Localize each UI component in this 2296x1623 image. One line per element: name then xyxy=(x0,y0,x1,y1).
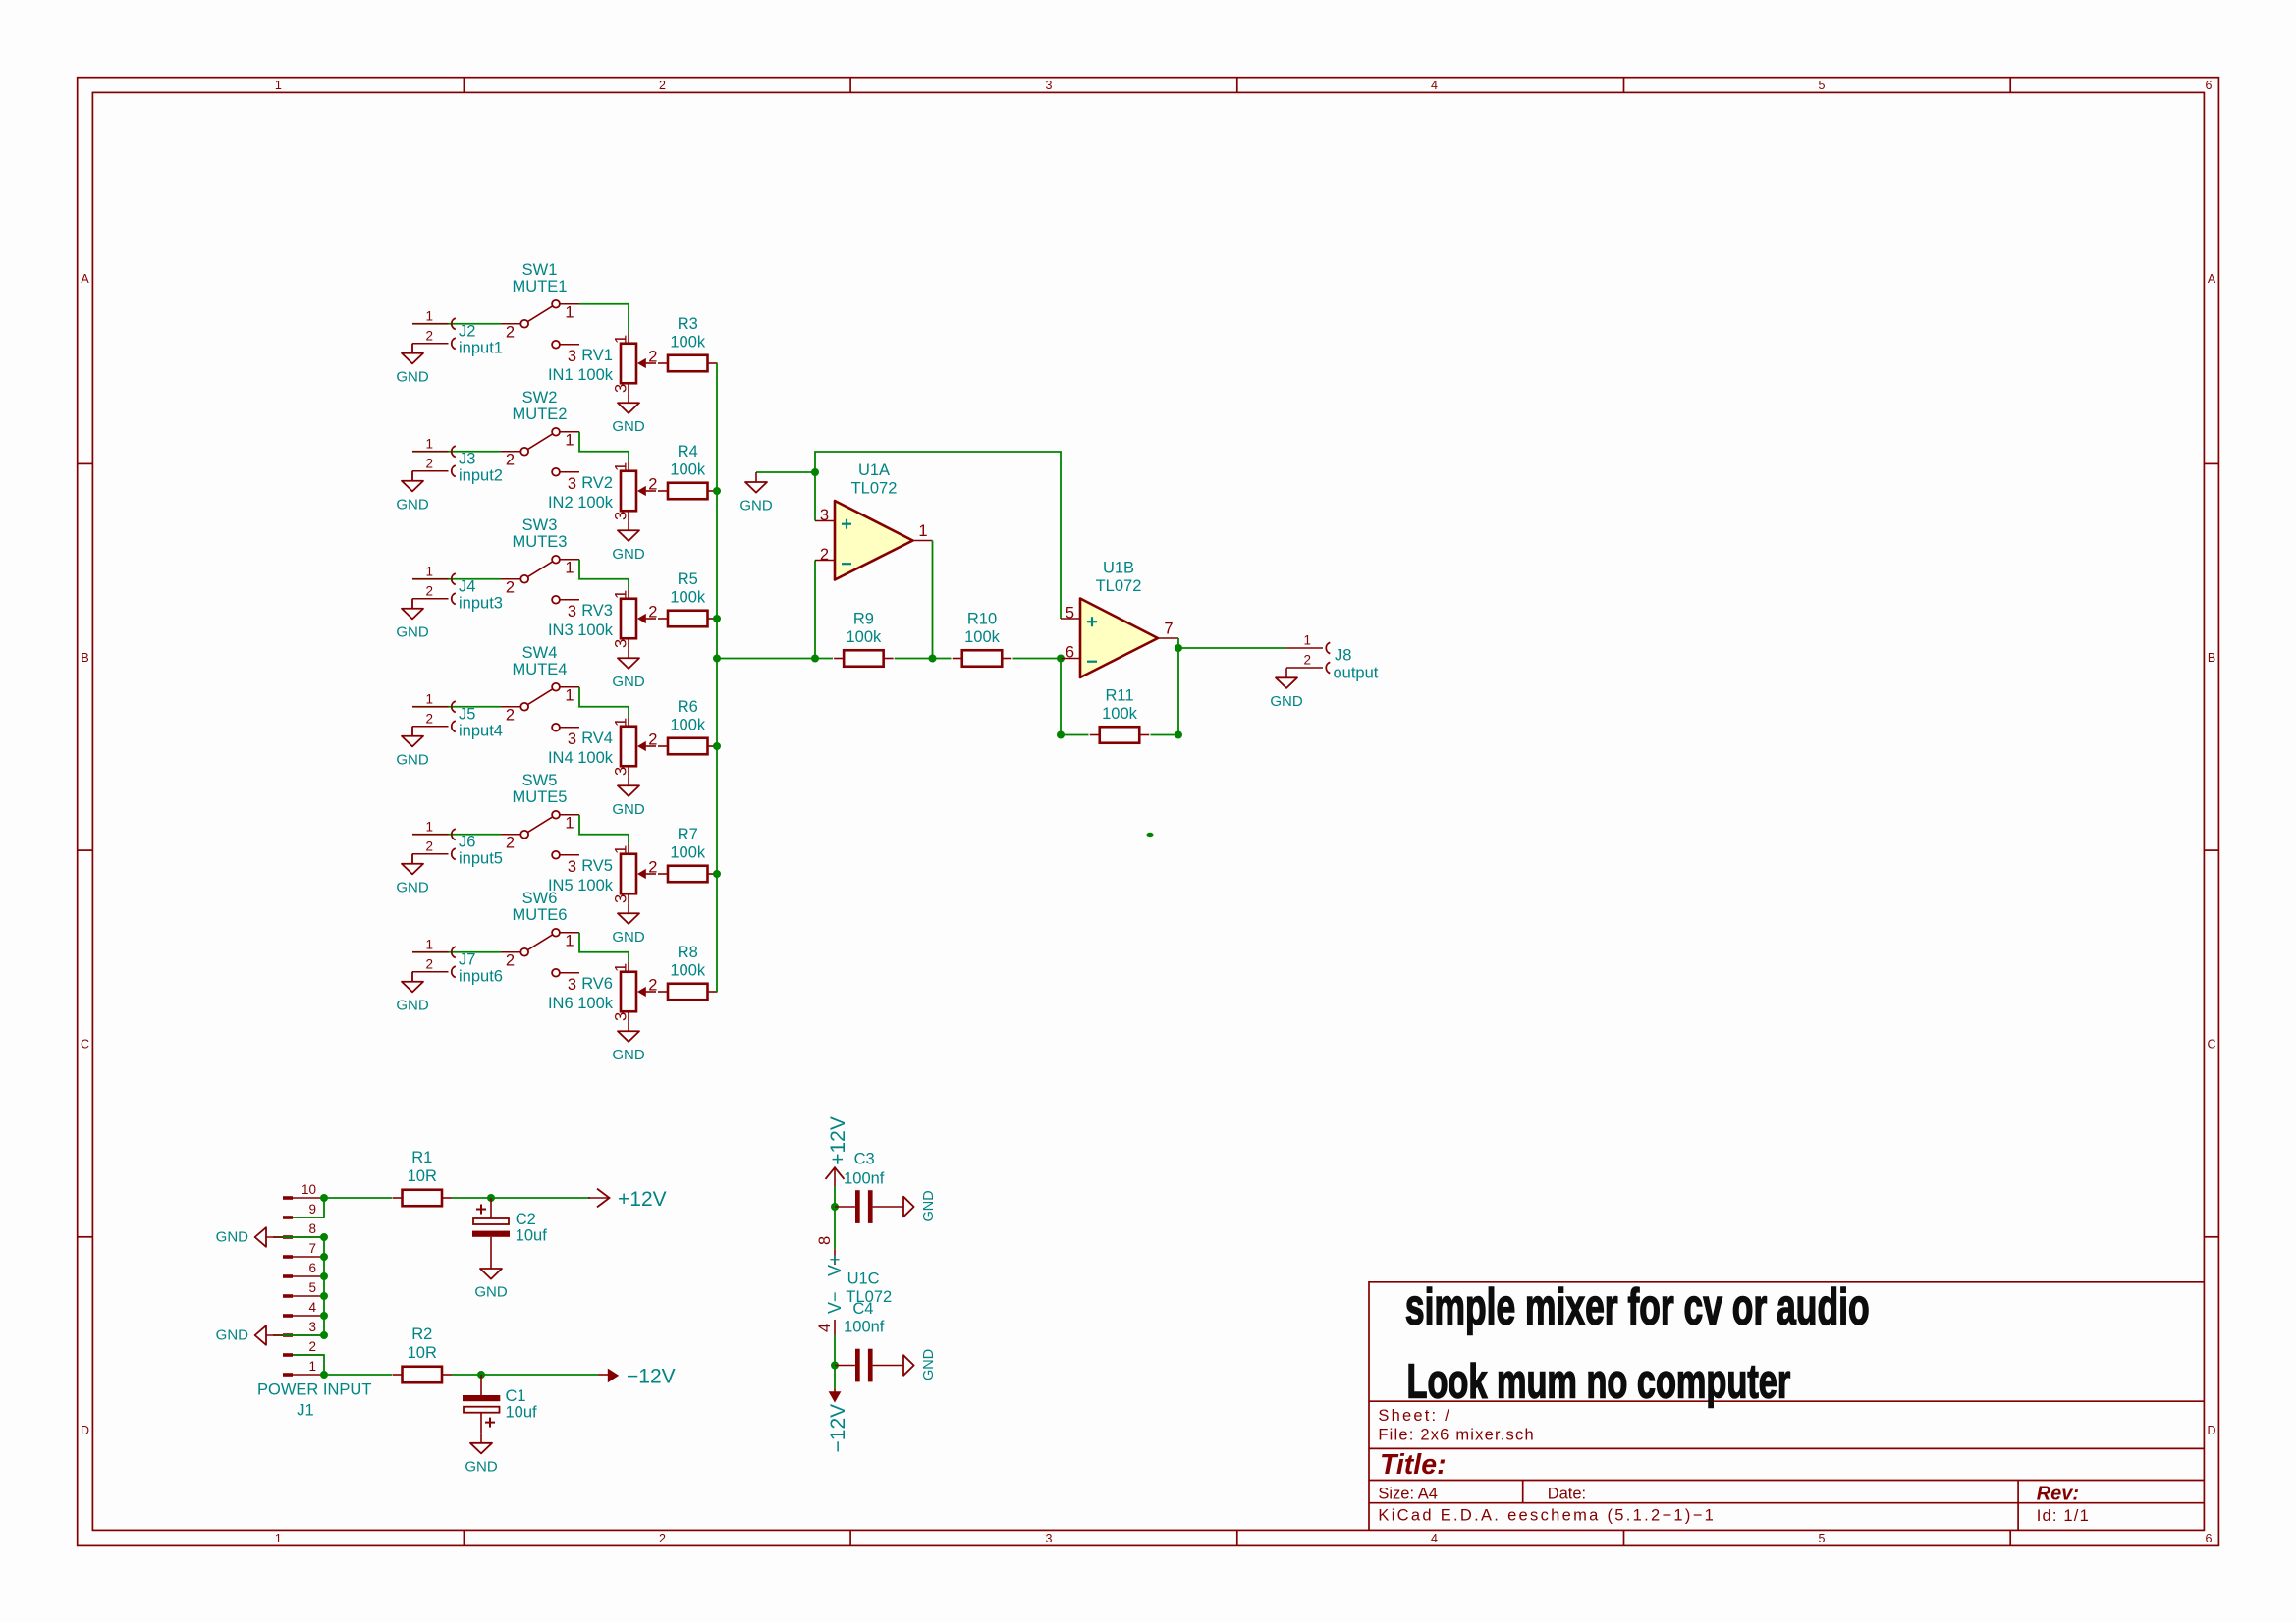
svg-text:6: 6 xyxy=(2206,1532,2213,1545)
potentiometer RV4 xyxy=(548,717,658,777)
svg-text:R6: R6 xyxy=(678,698,698,716)
svg-text:input3: input3 xyxy=(459,594,503,612)
svg-text:input4: input4 xyxy=(459,722,503,739)
ground at potentiometer pin 3 xyxy=(612,776,645,818)
svg-text:5: 5 xyxy=(1066,605,1074,622)
connector J4 (input3) xyxy=(412,578,449,580)
svg-text:2: 2 xyxy=(648,731,657,749)
svg-text:Size: A4: Size: A4 xyxy=(1378,1485,1438,1502)
svg-text:V−: V− xyxy=(825,1291,845,1314)
wire +12V to U1C V+ xyxy=(834,1186,836,1249)
wire U1A -input down to summing line xyxy=(814,561,816,659)
svg-text:1: 1 xyxy=(565,686,574,704)
junction output node xyxy=(1175,644,1182,652)
svg-text:2: 2 xyxy=(425,583,433,598)
svg-text:3: 3 xyxy=(568,348,576,365)
svg-text:C1: C1 xyxy=(506,1387,526,1405)
junction feedback left xyxy=(1057,731,1065,739)
junction J1 pin 7 xyxy=(320,1253,328,1261)
ground at connector pin 2 xyxy=(396,972,429,1014)
svg-text:4: 4 xyxy=(816,1324,834,1332)
svg-text:C2: C2 xyxy=(516,1211,536,1228)
title block divider 1 xyxy=(1369,1400,2204,1402)
svg-text:RV1: RV1 xyxy=(581,347,613,364)
svg-text:1: 1 xyxy=(425,308,433,323)
svg-text:GND: GND xyxy=(612,546,645,563)
svg-text:100nf: 100nf xyxy=(844,1170,885,1188)
svg-text:3: 3 xyxy=(568,475,576,493)
junction J1 pin 8 xyxy=(320,1233,328,1241)
svg-text:100k: 100k xyxy=(1102,705,1138,723)
svg-text:100k: 100k xyxy=(670,334,706,352)
svg-text:U1B: U1B xyxy=(1103,559,1134,576)
svg-text:input5: input5 xyxy=(459,849,503,867)
svg-text:4: 4 xyxy=(308,1300,316,1315)
svg-text:IN6 100k: IN6 100k xyxy=(548,995,614,1012)
ground at U1A non-inverting input xyxy=(739,472,815,514)
pin 10 of J1 xyxy=(283,1196,293,1200)
svg-text:+12V: +12V xyxy=(618,1188,667,1211)
svg-text:U1A: U1A xyxy=(858,461,890,479)
svg-text:2: 2 xyxy=(659,79,666,92)
svg-text:10R: 10R xyxy=(408,1344,437,1362)
svg-text:1: 1 xyxy=(275,79,282,92)
junction U1A -input at summing line xyxy=(811,655,819,663)
U1A minus input marker xyxy=(842,563,851,565)
wire J1 pins 1-2 xyxy=(293,1355,324,1375)
svg-text:100k: 100k xyxy=(670,589,706,607)
ground at connector pin 2 xyxy=(396,471,429,514)
switch SW2 (MUTE2) xyxy=(501,389,579,493)
svg-text:Id: 1/1: Id: 1/1 xyxy=(2037,1507,2090,1525)
potentiometer RV2 xyxy=(548,461,658,521)
svg-text:1: 1 xyxy=(613,462,630,471)
pin 9 of J1 xyxy=(283,1216,293,1219)
connector J6 (input5) xyxy=(412,834,449,836)
svg-text:R9: R9 xyxy=(853,611,874,628)
svg-text:7: 7 xyxy=(308,1241,316,1256)
svg-text:8: 8 xyxy=(816,1236,834,1245)
ground right of C4 xyxy=(903,1349,937,1380)
svg-text:TL072: TL072 xyxy=(851,480,898,498)
svg-text:D: D xyxy=(81,1424,89,1437)
svg-text:1: 1 xyxy=(425,564,433,578)
svg-text:5: 5 xyxy=(1819,79,1826,92)
resistor R5 xyxy=(658,570,718,626)
svg-text:J1: J1 xyxy=(297,1402,313,1420)
svg-text:U1C: U1C xyxy=(847,1270,880,1287)
svg-text:6: 6 xyxy=(2206,79,2213,92)
svg-text:GND: GND xyxy=(396,496,429,513)
ground at potentiometer pin 3 xyxy=(612,903,645,946)
svg-text:−12V: −12V xyxy=(627,1365,676,1387)
wire R11 to output node xyxy=(1151,734,1179,736)
svg-text:1: 1 xyxy=(613,335,630,344)
svg-text:MUTE4: MUTE4 xyxy=(513,661,568,678)
svg-text:100nf: 100nf xyxy=(844,1319,885,1336)
svg-text:3: 3 xyxy=(613,384,630,393)
junction J1 pin 6 xyxy=(320,1272,328,1280)
svg-text:GND: GND xyxy=(474,1284,508,1301)
op-amp U1A TL072 xyxy=(815,461,933,580)
ground arrow at J1 pin 8 xyxy=(216,1227,283,1247)
svg-text:2: 2 xyxy=(648,859,657,877)
svg-text:GND: GND xyxy=(216,1229,249,1246)
svg-text:1: 1 xyxy=(565,932,574,949)
svg-text:GND: GND xyxy=(396,879,429,895)
svg-text:GND: GND xyxy=(396,368,429,385)
power flag -12V right xyxy=(598,1365,676,1387)
ground under C2 xyxy=(474,1259,508,1301)
title block divider 3 xyxy=(1369,1480,2204,1482)
svg-text:2: 2 xyxy=(506,951,515,969)
resistor R11 xyxy=(1090,687,1150,743)
svg-text:input1: input1 xyxy=(459,339,503,356)
svg-text:100k: 100k xyxy=(670,717,706,734)
svg-text:C3: C3 xyxy=(854,1151,875,1168)
svg-text:MUTE1: MUTE1 xyxy=(513,278,568,296)
title block divider 2 xyxy=(1369,1447,2204,1449)
svg-text:IN1 100k: IN1 100k xyxy=(548,366,614,384)
stray green mark xyxy=(1147,833,1154,837)
pin 6 of J1 xyxy=(283,1274,293,1278)
resistor R8 xyxy=(658,944,718,1000)
svg-text:2: 2 xyxy=(506,451,515,468)
ground at connector pin 2 xyxy=(396,344,429,386)
svg-text:9: 9 xyxy=(308,1202,316,1217)
wire summing line to R9 xyxy=(717,658,833,660)
ground at J8 pin 2 xyxy=(1270,668,1303,710)
svg-text:GND: GND xyxy=(396,751,429,768)
svg-text:10uf: 10uf xyxy=(516,1227,548,1245)
svg-text:7: 7 xyxy=(1164,621,1173,638)
svg-text:10: 10 xyxy=(301,1182,316,1197)
svg-text:B: B xyxy=(81,651,88,665)
wire J1 pins 9-10 xyxy=(293,1198,324,1217)
power flag +12V right xyxy=(588,1188,667,1211)
svg-text:2: 2 xyxy=(506,834,515,851)
potentiometer RV6 xyxy=(548,962,658,1022)
svg-text:1: 1 xyxy=(565,431,574,449)
switch SW6 (MUTE6) xyxy=(501,890,579,994)
connector J3 (input2) xyxy=(412,451,449,453)
svg-text:1: 1 xyxy=(275,1532,282,1545)
svg-text:GND: GND xyxy=(612,418,645,435)
svg-text:R7: R7 xyxy=(678,826,698,843)
svg-text:input2: input2 xyxy=(459,466,503,484)
resistor R2 xyxy=(393,1325,453,1382)
svg-text:2: 2 xyxy=(648,349,657,366)
title block vertical divider rev xyxy=(2017,1481,2019,1531)
svg-text:4: 4 xyxy=(1431,1532,1438,1545)
switch SW3 (MUTE3) xyxy=(501,516,579,621)
svg-text:GND: GND xyxy=(396,623,429,640)
svg-text:5: 5 xyxy=(1819,1532,1826,1545)
switch SW5 (MUTE5) xyxy=(501,772,579,876)
svg-text:1: 1 xyxy=(565,559,574,576)
junction on bus at y=500 xyxy=(713,487,721,495)
svg-text:2: 2 xyxy=(506,323,515,341)
svg-text:R11: R11 xyxy=(1105,687,1133,705)
wire R10 to U1B -input xyxy=(1013,658,1062,660)
svg-text:10R: 10R xyxy=(408,1167,437,1185)
svg-text:D: D xyxy=(2207,1424,2215,1437)
ground arrow at J1 pin 3 xyxy=(216,1325,283,1345)
svg-text:1: 1 xyxy=(565,814,574,832)
svg-text:4: 4 xyxy=(1431,79,1438,92)
switch SW1 (MUTE1) xyxy=(501,261,579,365)
junction J1 pin 1 xyxy=(320,1371,328,1379)
svg-text:1: 1 xyxy=(613,963,630,972)
svg-text:V+: V+ xyxy=(825,1254,845,1276)
svg-text:2: 2 xyxy=(425,956,433,971)
title block divider 4 xyxy=(1369,1502,2204,1504)
svg-text:IN3 100k: IN3 100k xyxy=(548,622,614,639)
svg-text:GND: GND xyxy=(612,929,645,946)
svg-text:C4: C4 xyxy=(852,1300,873,1318)
svg-text:3: 3 xyxy=(568,603,576,621)
svg-text:IN4 100k: IN4 100k xyxy=(548,749,614,767)
svg-text:3: 3 xyxy=(613,639,630,648)
wire U1C V- to -12V xyxy=(834,1335,836,1389)
switch SW4 (MUTE4) xyxy=(501,644,579,748)
svg-text:1: 1 xyxy=(1303,633,1311,648)
svg-text:GND: GND xyxy=(921,1349,937,1380)
junction C3 tap xyxy=(831,1203,839,1211)
resistor R7 xyxy=(658,826,718,882)
svg-text:SW6: SW6 xyxy=(522,890,558,907)
svg-text:MUTE3: MUTE3 xyxy=(513,533,568,551)
resistor R9 xyxy=(834,611,894,667)
svg-text:2: 2 xyxy=(425,328,433,343)
svg-text:RV2: RV2 xyxy=(581,474,613,492)
svg-text:8: 8 xyxy=(308,1221,316,1236)
svg-text:3: 3 xyxy=(1046,79,1053,92)
op-amp power pins U1C xyxy=(816,1236,892,1335)
wire from connector pin 1 to switch xyxy=(412,323,501,325)
svg-text:−12V: −12V xyxy=(827,1404,849,1453)
power flag +12V up xyxy=(826,1116,850,1186)
junction J1 pin 10 xyxy=(320,1194,328,1202)
wire from connector pin 1 to switch xyxy=(412,834,501,836)
wire from switch to potentiometer xyxy=(579,304,629,334)
pin 2 of J1 xyxy=(283,1353,293,1357)
svg-text:1: 1 xyxy=(613,718,630,727)
svg-text:3: 3 xyxy=(1046,1532,1053,1545)
resistor R3 xyxy=(658,315,718,371)
svg-text:SW5: SW5 xyxy=(522,772,558,789)
capacitor C3 100nf xyxy=(835,1151,903,1223)
junction R9/R10/U1A output xyxy=(929,655,937,663)
svg-text:simple mixer for cv or audio: simple mixer for cv or audio xyxy=(1405,1279,1870,1336)
svg-text:100k: 100k xyxy=(847,628,883,646)
svg-text:1: 1 xyxy=(613,590,630,599)
potentiometer RV5 xyxy=(548,844,658,904)
U1B minus input marker xyxy=(1087,661,1097,663)
svg-text:SW1: SW1 xyxy=(522,261,558,279)
wire from switch to potentiometer xyxy=(579,815,629,844)
wire R9 to R10 xyxy=(895,658,952,660)
svg-text:TL072: TL072 xyxy=(1096,577,1142,595)
svg-text:GND: GND xyxy=(921,1190,937,1221)
svg-text:3: 3 xyxy=(613,512,630,520)
wire J1 pin1 to R2 xyxy=(324,1374,392,1376)
junction J1 pin 4 xyxy=(320,1312,328,1320)
svg-text:IN5 100k: IN5 100k xyxy=(548,877,614,894)
svg-text:1: 1 xyxy=(425,691,433,706)
wire from connector pin 1 to switch xyxy=(412,451,501,453)
svg-text:2: 2 xyxy=(425,711,433,726)
wire output to connector J8 xyxy=(1178,647,1286,649)
wire U1B feedback down xyxy=(1061,659,1089,735)
svg-text:2: 2 xyxy=(425,456,433,470)
svg-text:1: 1 xyxy=(425,436,433,451)
connector J5 (input4) xyxy=(412,706,449,708)
junction at U1A +input ground tap xyxy=(811,468,819,476)
svg-text:A: A xyxy=(2208,272,2216,286)
svg-text:2: 2 xyxy=(659,1532,666,1545)
svg-text:input6: input6 xyxy=(459,967,503,985)
wire U1A output down to R9/R10 node xyxy=(932,541,934,659)
svg-text:File: 2x6 mixer.sch: File: 2x6 mixer.sch xyxy=(1378,1426,1534,1443)
svg-text:2: 2 xyxy=(425,839,433,853)
svg-text:GND: GND xyxy=(739,498,773,514)
wire U1B output down xyxy=(1177,638,1179,735)
svg-text:R3: R3 xyxy=(678,315,698,333)
wire from switch to potentiometer xyxy=(579,687,629,717)
svg-text:3: 3 xyxy=(308,1320,316,1334)
svg-text:1: 1 xyxy=(425,819,433,834)
U1B plus input marker xyxy=(1087,621,1097,622)
ground at potentiometer pin 3 xyxy=(612,393,645,435)
svg-text:R1: R1 xyxy=(411,1149,432,1166)
junction J1 pin 5 xyxy=(320,1292,328,1300)
svg-text:J5: J5 xyxy=(459,705,475,723)
svg-text:2: 2 xyxy=(820,546,829,564)
svg-text:RV3: RV3 xyxy=(581,602,613,620)
svg-text:3: 3 xyxy=(568,976,576,994)
potentiometer RV1 xyxy=(548,334,658,394)
svg-text:GND: GND xyxy=(1270,693,1303,710)
connector J7 (input6) xyxy=(412,951,449,953)
connector J2 (input1) xyxy=(412,323,449,325)
svg-text:R4: R4 xyxy=(678,443,698,460)
svg-text:3: 3 xyxy=(568,730,576,748)
pin 8 of J1 xyxy=(283,1235,293,1239)
title block vertical divider size/date xyxy=(1522,1481,1524,1503)
op-amp U1B TL072 xyxy=(1061,559,1178,677)
svg-text:MUTE6: MUTE6 xyxy=(513,906,568,924)
resistor R1 xyxy=(393,1149,453,1206)
ground under C1 xyxy=(465,1434,498,1476)
svg-text:6: 6 xyxy=(308,1261,316,1275)
junction C1 tap xyxy=(477,1371,485,1379)
svg-text:2: 2 xyxy=(1303,653,1311,668)
svg-text:1: 1 xyxy=(918,522,927,540)
capacitor C2 10uf xyxy=(472,1198,547,1259)
svg-text:GND: GND xyxy=(612,801,645,818)
svg-text:3: 3 xyxy=(613,894,630,903)
svg-text:GND: GND xyxy=(612,674,645,690)
wire U1A +input to ground and U1B +input rail xyxy=(815,452,1061,619)
svg-text:B: B xyxy=(2208,651,2215,665)
svg-text:SW3: SW3 xyxy=(522,516,558,534)
svg-text:1: 1 xyxy=(565,303,574,321)
svg-text:GND: GND xyxy=(216,1327,249,1344)
ground at potentiometer pin 3 xyxy=(612,648,645,690)
resistor R10 xyxy=(953,611,1012,667)
svg-text:3: 3 xyxy=(613,767,630,776)
ground at connector pin 2 xyxy=(396,854,429,896)
svg-text:RV6: RV6 xyxy=(581,975,613,993)
svg-text:Look mum no computer: Look mum no computer xyxy=(1407,1355,1791,1408)
junction on bus at y=630 xyxy=(713,615,721,622)
capacitor C4 100nf xyxy=(835,1300,903,1382)
ground at connector pin 2 xyxy=(396,727,429,769)
connector J1 POWER INPUT xyxy=(257,1182,371,1420)
svg-text:J7: J7 xyxy=(459,950,475,968)
svg-text:J6: J6 xyxy=(459,833,475,850)
ground at potentiometer pin 3 xyxy=(612,1021,645,1063)
svg-text:J8: J8 xyxy=(1335,647,1351,665)
wire from connector pin 1 to switch xyxy=(412,706,501,708)
svg-text:3: 3 xyxy=(613,1012,630,1021)
wire from switch to potentiometer xyxy=(579,933,629,962)
svg-text:A: A xyxy=(81,272,89,286)
connector J8 (output) xyxy=(1286,633,1379,682)
junction C4 tap xyxy=(831,1362,839,1370)
resistor R4 xyxy=(658,443,718,499)
svg-text:C: C xyxy=(81,1038,89,1052)
svg-text:J2: J2 xyxy=(459,322,475,340)
svg-text:KiCad E.D.A. eeschema (5.1.2−: KiCad E.D.A. eeschema (5.1.2−1)−1 xyxy=(1378,1507,1716,1525)
svg-text:RV5: RV5 xyxy=(581,857,613,875)
ground at potentiometer pin 3 xyxy=(612,520,645,563)
junction C2 tap xyxy=(487,1194,495,1202)
svg-text:IN2 100k: IN2 100k xyxy=(548,494,614,512)
svg-text:R10: R10 xyxy=(967,611,997,628)
junction bus to summing line xyxy=(713,655,721,663)
pin 4 of J1 xyxy=(283,1314,293,1318)
svg-text:1: 1 xyxy=(613,845,630,854)
svg-text:2: 2 xyxy=(648,604,657,622)
svg-text:1: 1 xyxy=(425,937,433,951)
svg-text:MUTE5: MUTE5 xyxy=(513,788,568,806)
svg-text:3: 3 xyxy=(820,507,829,524)
junction on bus at y=890 xyxy=(713,870,721,878)
U1A plus input marker xyxy=(842,523,851,525)
wire J1 pins 3-8 gnd bus xyxy=(273,1237,324,1335)
svg-text:100k: 100k xyxy=(670,461,706,479)
svg-text:2: 2 xyxy=(506,578,515,596)
wire R2 to -12V xyxy=(452,1374,598,1376)
svg-text:C: C xyxy=(2207,1038,2215,1052)
ground right of C3 xyxy=(903,1190,937,1221)
svg-text:1: 1 xyxy=(308,1359,316,1374)
svg-text:10uf: 10uf xyxy=(506,1404,538,1422)
svg-text:Rev:: Rev: xyxy=(2037,1484,2079,1505)
junction J1 pin 3 xyxy=(320,1331,328,1339)
svg-text:2: 2 xyxy=(506,706,515,724)
junction feedback right xyxy=(1175,731,1182,739)
pin 3 of J1 xyxy=(283,1333,293,1337)
svg-text:2: 2 xyxy=(648,476,657,494)
svg-text:J4: J4 xyxy=(459,577,475,595)
svg-text:+12V: +12V xyxy=(827,1116,849,1165)
svg-text:R5: R5 xyxy=(678,570,698,588)
pin 5 of J1 xyxy=(283,1294,293,1298)
wire mixing bus vertical xyxy=(716,363,718,992)
